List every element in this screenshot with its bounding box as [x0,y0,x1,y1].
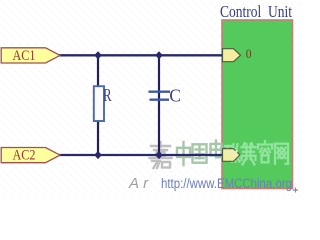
junction at AC2/resistor [94,151,102,159]
corner mark [293,188,298,193]
resistor R [94,86,104,121]
svg-text:R: R [103,85,112,105]
pin 0 arrow (AC1 side, upper pin) [223,49,241,62]
svg-text:Control Unit: Control Unit [220,2,292,21]
svg-text:http://www.EMCChina.org: http://www.EMCChina.org [161,176,292,191]
capacitor C top plate [149,91,171,93]
svg-text:AC1: AC1 [13,48,36,64]
junction at AC1/capacitor [155,51,163,59]
port AC2 [1,148,60,163]
pin arrow lower (AC2 side) [223,149,241,162]
watermark char 容 [258,141,272,162]
watermark char 国 [193,144,207,162]
watermark char 兼 [242,143,256,164]
watermark char 网 [275,144,288,164]
watermark char 电 [211,141,223,158]
watermark char 磁 [225,144,240,161]
svg-text:C: C [169,85,181,105]
watermark char jia 嘉 [150,142,172,168]
wire AC1 to control unit [59,54,222,56]
junction at AC2/capacitor [155,151,163,159]
svg-text:0: 0 [246,46,252,61]
capacitor C bottom plate [150,99,170,101]
port AC1 [1,48,60,63]
junction at AC1/resistor [94,51,102,59]
Control Unit box U1 [222,20,293,189]
wire resistor branch vertical [97,55,99,155]
svg-text:A r: A r [128,175,149,192]
watermark char 中 [177,142,190,165]
watermark ghost strokes over lower pin [226,150,238,161]
wire AC2 to control unit [59,154,222,156]
svg-text:AC2: AC2 [13,148,36,164]
wire capacitor branch vertical [158,55,160,155]
